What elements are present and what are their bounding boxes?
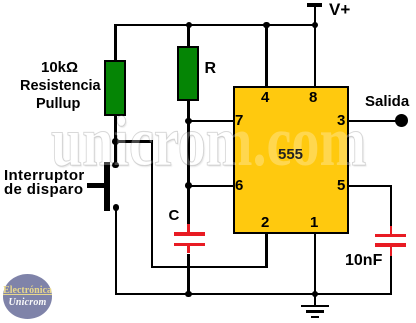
label 555 xyxy=(278,147,303,162)
logo text Unicrom xyxy=(3,298,52,308)
ground symbol bar3 xyxy=(311,316,320,318)
switch SW1 contact top xyxy=(112,162,119,169)
capacitor C2 10nF plate top xyxy=(375,234,406,237)
watermark unicrom.com xyxy=(51,102,366,183)
wire ground rail xyxy=(115,293,393,296)
capacitor C2 10nF lead top xyxy=(390,226,393,234)
node pin6 junction xyxy=(185,182,192,189)
wire top rail V+ xyxy=(114,24,316,27)
pin 7 label xyxy=(235,113,243,128)
node Salida terminal xyxy=(395,114,408,127)
wire V+ stub xyxy=(314,4,317,25)
wire pin1 drop xyxy=(314,232,317,294)
wire pullup bottom to trigger junction to switch xyxy=(114,115,117,167)
pin 4 label xyxy=(261,90,269,105)
pin 6 label xyxy=(235,178,243,193)
ground symbol bar1 xyxy=(301,305,330,307)
node pin7 junction xyxy=(185,118,192,125)
wire switch bottom drop xyxy=(115,208,118,296)
wire trigger horizontal xyxy=(114,140,153,143)
wire pin5 stub xyxy=(348,185,392,188)
capacitor C lead bottom xyxy=(187,246,190,254)
watermark unicrom.com overlay xyxy=(51,102,366,183)
node V+ junction xyxy=(312,22,319,29)
switch SW1 plunger plate xyxy=(104,162,110,211)
wire pin2 vertical xyxy=(265,232,268,268)
logo Electronica Unicrom xyxy=(3,274,52,319)
label de disparo xyxy=(4,182,83,197)
label R xyxy=(205,61,217,77)
op-amp U1 555 timer body xyxy=(233,86,349,235)
label Salida xyxy=(365,94,409,109)
wire left drop to pullup resistor xyxy=(114,24,117,61)
pin 2 label xyxy=(261,215,269,230)
capacitor C2 10nF plate bottom xyxy=(375,243,406,246)
label C xyxy=(169,208,180,223)
wire ground stub xyxy=(314,294,317,306)
label 10nF xyxy=(345,253,382,269)
power terminal V+ bar xyxy=(307,3,323,7)
wire pin2 horizontal xyxy=(151,266,268,269)
logo text Electronica xyxy=(3,286,52,296)
label Pullup xyxy=(36,97,80,112)
wire 10nF bottom drop xyxy=(390,256,393,295)
wire pin3 stub xyxy=(348,120,397,123)
switch SW1 stem xyxy=(87,183,104,189)
node trigger junction xyxy=(112,138,119,145)
capacitor C lead top xyxy=(187,224,190,232)
label Interruptor xyxy=(4,168,85,183)
wire pin6 stub xyxy=(187,185,233,188)
pin 1 label xyxy=(310,215,318,230)
resistor R2 R xyxy=(177,46,199,101)
capacitor C plate bottom xyxy=(174,243,205,246)
wire 10nF top drop xyxy=(390,185,393,227)
wire pin8 drop xyxy=(314,24,317,87)
wire pin7 stub xyxy=(187,120,233,123)
wire C bottom drop xyxy=(187,254,190,295)
node ground junction xyxy=(312,291,319,298)
pin 5 label xyxy=(337,178,345,193)
pin 3 label xyxy=(337,113,345,128)
ground symbol bar2 xyxy=(306,310,324,312)
node C ground junction xyxy=(185,291,192,298)
wire pin4 drop xyxy=(265,24,268,87)
label 10kΩ xyxy=(41,60,78,75)
node R top junction xyxy=(186,22,193,29)
label V+ xyxy=(329,1,350,18)
label Resistencia xyxy=(20,79,101,94)
pin 8 label xyxy=(309,90,317,105)
node pin4 top junction xyxy=(263,22,270,29)
switch SW1 contact bottom xyxy=(113,204,120,211)
wire R column bottom xyxy=(187,100,190,226)
capacitor C plate top xyxy=(174,232,205,235)
capacitor C2 10nF lead bottom xyxy=(390,247,393,257)
wire trigger vertical to pin2 line xyxy=(151,140,154,268)
wire R column top xyxy=(187,24,190,48)
resistor R1 10k pullup xyxy=(104,60,126,116)
